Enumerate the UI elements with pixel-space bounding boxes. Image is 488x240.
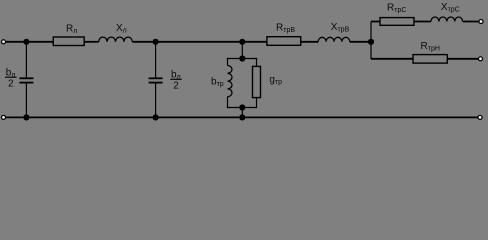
inductor X_trV (4 humps)	[318, 37, 350, 42]
wire: vertical splitter line at node	[370, 22, 372, 59]
wire: between R_trS and X_trS	[414, 21, 431, 23]
label b_l/2 fraction no.2	[170, 70, 181, 92]
resistor R_trS box	[380, 18, 414, 26]
wire: magnetizing branch stub from top bus	[241, 42, 243, 59]
wire: b_tr coil top stub	[227, 58, 229, 66]
wire: between R_trV and X_trV	[301, 41, 319, 43]
wire: shunt capacitor branch 2 vertical lower	[155, 83, 157, 118]
resistor g_tr (vertical box)	[253, 66, 261, 97]
wire: shunt capacitor branch 2 vertical upper	[155, 42, 157, 79]
inductor X_l (4 humps)	[99, 37, 133, 42]
wire: from X_trV to splitter node	[350, 41, 371, 43]
capacitor b_l/2 no.1 plates	[19, 78, 33, 82]
wire: shunt capacitor branch 1 vertical lower	[25, 83, 27, 118]
inductor b_tr (vertical, 4 scallops bulging right)	[228, 66, 233, 97]
wire: magnetizing branch bottom bar	[227, 107, 257, 109]
node: splitter between windings	[368, 39, 374, 45]
node: magnetizing branch bottom bar	[239, 104, 245, 110]
wire: between R_l and X_l	[84, 41, 99, 43]
terminal: top left	[2, 40, 6, 44]
svg-text:2: 2	[8, 79, 14, 90]
wire: shunt capacitor branch 1 vertical upper	[25, 42, 27, 79]
terminal: bottom right	[478, 115, 482, 119]
inductor X_trS (4 humps)	[431, 17, 463, 22]
wire: top bus from left terminal to R_l	[6, 41, 54, 43]
node: bottom bus / capacitor branch 1	[23, 114, 29, 120]
wire: magnetizing branch stub to bottom bus	[241, 108, 243, 118]
resistor R_trN box	[413, 55, 447, 64]
node: top bus / capacitor branch 1	[23, 39, 29, 45]
node: bottom bus / capacitor branch 2	[153, 114, 159, 120]
node: bottom bus / magnetizing branch	[239, 114, 245, 120]
capacitor b_l/2 no.2 plates	[149, 78, 163, 82]
wire: upper branch from splitter to R_trS	[371, 21, 380, 23]
wire: g_tr top stub	[256, 58, 258, 67]
node: top bus / capacitor branch 2	[153, 39, 159, 45]
node: top bus / magnetizing branch	[239, 39, 245, 45]
wire: magnetizing branch top bar	[227, 58, 257, 60]
terminal: upper right	[479, 20, 483, 24]
wire: top bus from X_l to R_trV	[132, 41, 267, 43]
terminal: middle right	[479, 57, 483, 61]
label b_l/2 fraction no.1	[5, 68, 17, 90]
wire: X_trS to upper right terminal	[463, 21, 479, 23]
resistor R_trV box	[267, 37, 301, 46]
resistor R_l box	[53, 37, 84, 46]
wire: lower branch from splitter to R_trN	[371, 58, 413, 60]
node: magnetizing branch top bar	[239, 55, 245, 61]
wire: bottom bus	[6, 116, 479, 118]
terminal: bottom left	[2, 115, 6, 119]
svg-text:2: 2	[173, 81, 179, 92]
wire: R_trN to middle right terminal	[447, 58, 478, 60]
wire: b_tr coil bottom stub	[227, 97, 229, 108]
wire: g_tr bottom stub	[256, 98, 258, 109]
